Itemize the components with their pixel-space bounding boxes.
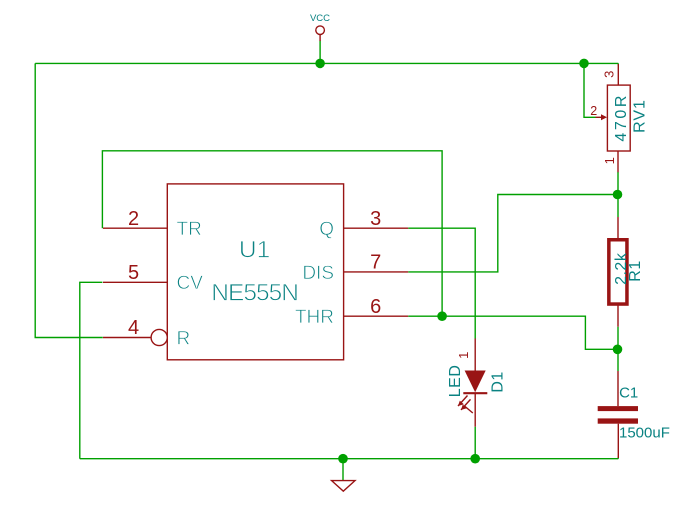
pin 2 TR [103,208,202,240]
svg-text:VCC: VCC [310,13,330,24]
junction R1 bottom / THR / C1 [613,345,623,355]
wire feedback TR loop [102,151,442,316]
svg-text:CV: CV [177,273,204,294]
power symbol VCC [310,13,330,41]
svg-text:C1: C1 [619,384,638,401]
svg-text:R1: R1 [627,260,644,281]
pin 5 CV [103,262,203,294]
svg-text:6: 6 [370,296,381,318]
svg-text:4: 4 [128,317,139,339]
junction ground / bottom rail [338,454,348,464]
svg-text:7: 7 [370,252,381,274]
wire LED cathode to bottom rail [474,427,476,459]
LED D1 [458,339,487,427]
wire THR pin6 to R1 bottom node [408,316,617,349]
wire wiper branch to RV1 pin2 [584,63,596,117]
svg-text:470R: 470R [613,93,630,142]
resistor R1 [609,217,627,327]
wire Q pin3 to LED [408,228,475,338]
wire bottom rail [80,458,619,460]
wire left rail down to pin4 [35,63,103,337]
IC U1 NE555N body [167,184,343,360]
wire top rail [35,62,618,64]
wire RV1 pin1 to node [617,172,619,195]
svg-text:1500uF: 1500uF [619,424,670,441]
wire C1 bottom corner to bottom rail [617,457,619,459]
svg-text:5: 5 [128,262,139,284]
wire DIS pin7 to RV1 pin1 node [408,195,617,272]
svg-text:R: R [177,328,191,349]
potentiometer RV1 [596,64,631,172]
junction feedback / THR [437,311,447,321]
svg-text:3: 3 [602,71,617,78]
svg-text:1: 1 [456,352,471,359]
wire node to R1 top [617,195,619,218]
svg-text:THR: THR [295,307,334,328]
wire VCC stem [319,41,321,64]
svg-text:1: 1 [602,157,617,164]
svg-text:U1: U1 [239,237,270,264]
pin 3 Q [319,208,408,240]
wire ground stem [342,459,344,481]
svg-text:DIS: DIS [302,263,334,284]
wire CV branch down to bottom rail [80,282,103,458]
svg-text:2: 2 [128,208,139,230]
wire top rail corner down to RV1 pin3 [617,63,619,65]
svg-text:2: 2 [590,104,597,118]
svg-text:Q: Q [319,219,334,240]
junction VCC top rail [315,59,325,69]
svg-text:TR: TR [177,219,202,240]
junction LED / bottom rail [470,454,480,464]
pin 7 DIS [302,252,408,284]
pin 6 THR [295,296,408,328]
svg-text:D1: D1 [490,371,507,392]
junction RV1 pin1 / DIS / R1 [613,190,623,200]
svg-text:LED: LED [447,365,464,398]
wire node to C1 top [617,349,619,371]
wire R1 bottom to node [617,327,619,350]
svg-text:3: 3 [370,208,381,230]
svg-text:NE555N: NE555N [211,279,298,306]
pin 4 R inverted [103,317,190,349]
svg-text:RV1: RV1 [632,99,649,133]
ground [332,481,355,492]
capacitor C1 [598,371,638,458]
junction wiper branch [579,59,589,69]
